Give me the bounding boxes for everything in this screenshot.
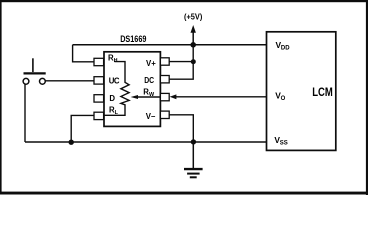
wire RL branch — [71, 115, 94, 142]
wire RH branch — [73, 45, 94, 62]
wire V- branch — [169, 115, 193, 142]
svg-text:LCM: LCM — [312, 87, 333, 99]
power +5V symbol — [191, 25, 196, 45]
svg-text:DC: DC — [144, 76, 154, 85]
ground symbol — [184, 142, 203, 177]
wire VO to RW with arrow — [170, 94, 267, 99]
svg-text:V–: V– — [146, 112, 156, 121]
svg-text:(+5V): (+5V) — [184, 12, 203, 21]
wire pushbutton to UC — [45, 80, 94, 82]
wire net VSS bottom rail — [25, 141, 267, 143]
pin UC box — [94, 77, 104, 84]
junction dot top rail x +5V — [190, 42, 196, 48]
pin RW box — [160, 93, 169, 100]
svg-text:UC: UC — [109, 77, 120, 86]
IC U1 DS1669 body — [104, 52, 160, 127]
pin D box — [94, 95, 104, 102]
junction dot RL x bottom rail — [69, 140, 74, 145]
pin RL box — [94, 112, 104, 119]
potentiometer element inside U1 — [104, 62, 129, 116]
pin V+ box — [160, 58, 169, 65]
wire net VDD top rail — [73, 44, 267, 46]
wire pushbutton left down to bottom rail — [24, 84, 26, 142]
wiper arrow to potentiometer — [131, 95, 161, 99]
LCM module box — [267, 32, 336, 151]
pin RH box — [94, 58, 104, 65]
svg-text:DS1669: DS1669 — [120, 34, 146, 44]
pin DC box — [160, 76, 169, 83]
svg-text:V+: V+ — [146, 59, 156, 68]
wire V+ branch — [169, 61, 193, 63]
junction dot V- x bottom rail — [191, 139, 196, 144]
junction dot V+ x +5V — [191, 59, 196, 64]
pushbutton S1 — [23, 58, 46, 84]
pin V- box — [160, 111, 169, 118]
svg-text:D: D — [109, 94, 115, 103]
wire +5V stem down to DC branch — [169, 45, 193, 79]
